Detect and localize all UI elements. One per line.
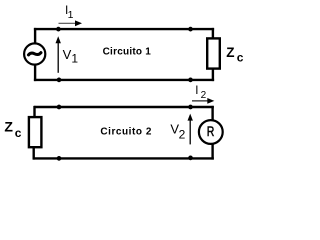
svg-text:2: 2 [179,128,186,142]
svg-text:Z: Z [226,45,234,60]
svg-text:V: V [63,47,72,62]
svg-text:Circuito 1: Circuito 1 [103,46,152,57]
svg-text:Circuito 2: Circuito 2 [100,127,151,138]
svg-text:I: I [195,85,198,97]
svg-text:c: c [15,126,22,140]
svg-text:Z: Z [4,119,13,135]
svg-text:R: R [207,123,215,139]
svg-text:c: c [237,51,244,65]
svg-text:1: 1 [68,9,74,21]
svg-text:2: 2 [201,90,207,101]
svg-text:1: 1 [71,52,78,66]
